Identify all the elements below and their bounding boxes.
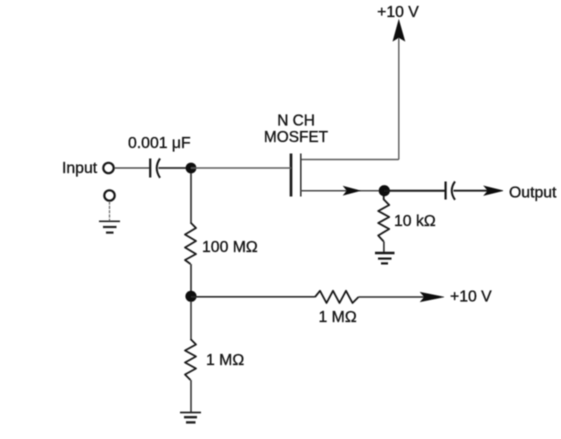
ground (10 k resistor) (375, 253, 395, 263)
wire output capacitor to output arrow (454, 190, 489, 192)
ground (input) (99, 221, 120, 232)
wire gate node to MOSFET gate (191, 167, 291, 169)
resistor 1 Mohm (vertical) (185, 339, 196, 380)
wire input terminal to capacitor (115, 167, 150, 169)
output arrow (484, 186, 503, 195)
svg-text:1 MΩ: 1 MΩ (206, 352, 244, 369)
svg-text:+10 V: +10 V (450, 289, 492, 306)
wire drain to +10 V (vertical) (398, 38, 400, 160)
resistor 1 Mohm (horizontal) (315, 291, 359, 303)
wire drain (horizontal) (301, 159, 399, 161)
wire gate node to 100 M resistor (190, 173, 192, 223)
node source (junction dot) (379, 185, 390, 196)
wire 100 M resistor to lower node (190, 264, 192, 296)
node divider (junction dot) (185, 291, 196, 302)
wire source node to output capacitor (384, 190, 445, 192)
wire 1 M resistor to ground (190, 380, 192, 412)
wire source to output node (301, 190, 384, 192)
resistor 10 kohm (vertical) (378, 196, 389, 242)
transistor N-channel MOSFET gate bar (290, 154, 293, 197)
input terminal circle (103, 163, 113, 173)
svg-text:10 kΩ: 10 kΩ (394, 213, 436, 230)
svg-text:+10 V: +10 V (377, 4, 419, 21)
wire 1 M resistor to +10 V arrow (359, 296, 425, 298)
svg-text:1 MΩ: 1 MΩ (319, 309, 357, 326)
input ground terminal circle (104, 190, 114, 200)
ground (bottom) (180, 413, 201, 423)
resistor 100 Mohm (vertical) (185, 223, 196, 265)
wire node to 1 M vertical resistor (190, 301, 192, 339)
capacitor 0.001 uF right curved plate (157, 159, 160, 178)
capacitor 0.001 uF left plate (149, 159, 151, 178)
wire 10 k resistor to ground (383, 242, 385, 253)
power arrow to +10 V (right) (421, 292, 445, 301)
power arrow to +10 V (top) (393, 20, 405, 41)
svg-text:0.001 μF: 0.001 μF (128, 135, 191, 152)
wire capacitor to gate node (159, 167, 192, 169)
svg-text:100 MΩ: 100 MΩ (202, 239, 258, 256)
svg-text:Output: Output (509, 185, 557, 202)
capacitor output left plate (445, 182, 447, 200)
wire ground terminal to ground (109, 202, 111, 222)
node gate (junction dot) (186, 163, 197, 174)
capacitor output right curved plate (452, 182, 455, 200)
svg-text:Input: Input (62, 160, 98, 177)
transistor N-channel MOSFET channel bar (300, 154, 302, 197)
source arrow (344, 186, 361, 195)
svg-text:MOSFET: MOSFET (264, 129, 329, 146)
wire node to 1 M horizontal resistor (191, 296, 315, 298)
svg-text:N CH: N CH (277, 113, 315, 130)
